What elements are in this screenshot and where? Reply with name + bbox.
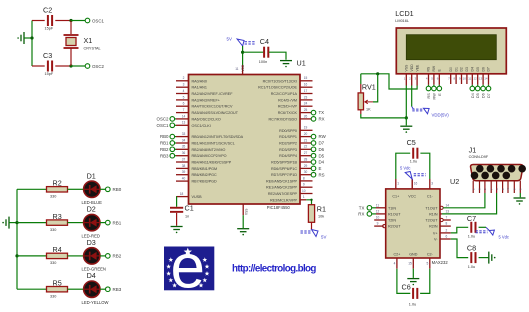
logo electrolog square [164, 247, 214, 291]
svg-text:RD7/SPP7/P1D: RD7/SPP7/P1D [271, 173, 297, 177]
svg-text:C2+: C2+ [393, 252, 400, 256]
terminal RB0 at U1 [170, 134, 175, 139]
svg-text:OSC1/CLKI: OSC1/CLKI [192, 124, 211, 128]
svg-text:C5: C5 [407, 138, 416, 147]
power 5Vdc flag VCC [411, 179, 413, 189]
svg-text:C7: C7 [467, 214, 476, 223]
svg-text:R2IN: R2IN [429, 225, 438, 229]
pin V- wire to C8 [440, 238, 451, 240]
pin VDD top of U1 [242, 65, 244, 75]
svg-text:38: 38 [182, 164, 186, 168]
svg-text:D4: D4 [87, 271, 96, 280]
svg-text:D1: D1 [454, 67, 458, 71]
U1 right pin labels [258, 79, 297, 202]
svg-text:11: 11 [235, 67, 239, 71]
svg-text:RB7/KBI3/PGD: RB7/KBI3/PGD [192, 180, 218, 184]
svg-text:13: 13 [479, 77, 483, 81]
U2 pin T2OUT bubble [440, 218, 443, 221]
svg-text:RA6/OSC2/CLKO: RA6/OSC2/CLKO [192, 117, 221, 121]
svg-text:RD1/SPP1: RD1/SPP1 [279, 135, 297, 139]
terminal D5 at LCD [477, 85, 479, 86]
svg-text:RB6/KBI2/PGC: RB6/KBI2/PGC [192, 173, 218, 177]
svg-text:RB2: RB2 [160, 147, 169, 152]
svg-text:34: 34 [182, 138, 186, 142]
wire VUSB to C1 [176, 197, 178, 207]
svg-text:330: 330 [50, 195, 56, 199]
wire C4 to ground [269, 52, 286, 60]
svg-text:3: 3 [183, 83, 185, 87]
svg-text:U2: U2 [450, 177, 459, 186]
svg-text:D0: D0 [449, 67, 453, 71]
svg-text:RA5/AN4/SS/LVDIN/C2OUT: RA5/AN4/SS/LVDIN/C2OUT [192, 111, 239, 115]
svg-text:C3: C3 [43, 51, 52, 60]
svg-text:RB1: RB1 [113, 220, 122, 225]
svg-text:4: 4 [183, 89, 185, 93]
svg-text:MAX232: MAX232 [432, 260, 449, 265]
svg-text:1: 1 [404, 77, 406, 81]
svg-text:E: E [319, 166, 322, 171]
svg-text:R1: R1 [317, 205, 326, 214]
svg-text:OSC1: OSC1 [92, 19, 105, 24]
svg-text:13: 13 [446, 210, 450, 214]
svg-text:15: 15 [304, 76, 308, 80]
svg-text:35: 35 [182, 145, 186, 149]
svg-text:8: 8 [453, 77, 455, 81]
svg-text:e: e [171, 232, 205, 301]
svg-text:RB0: RB0 [113, 187, 122, 192]
svg-text:13: 13 [182, 121, 186, 125]
wire VDD to C4 [243, 51, 264, 53]
wire D1 to terminal [100, 188, 106, 190]
terminal D4 at U1 [311, 160, 316, 165]
U1 right pins RE0-RE3 [300, 180, 313, 182]
svg-text:9: 9 [459, 77, 461, 81]
wire T1OUT to J1 pin 2 [443, 193, 485, 208]
capacitor C8 [471, 252, 475, 263]
wire R2 to D1 [68, 188, 84, 190]
node LED rail R4 [15, 254, 18, 257]
svg-text:U1: U1 [297, 59, 306, 68]
svg-text:1n: 1n [185, 215, 189, 219]
svg-text:1: 1 [303, 195, 305, 199]
svg-text:VDD(5V): VDD(5V) [432, 113, 450, 118]
svg-text:PIC18F4550: PIC18F4550 [267, 205, 291, 210]
pin V+ wire to C7 [440, 232, 451, 234]
U1 left pins RA0-OSC1 [176, 80, 189, 82]
svg-text:RA1/AN1: RA1/AN1 [192, 86, 207, 90]
svg-text:330: 330 [50, 261, 56, 265]
svg-text:12: 12 [376, 210, 380, 214]
svg-text:15pF: 15pF [45, 27, 54, 31]
svg-text:D7: D7 [319, 141, 325, 146]
U2 right pin labels [425, 203, 449, 241]
ground C8 [489, 252, 496, 264]
wire C7 to 5Vdc [479, 226, 486, 228]
svg-text:RS: RS [427, 93, 431, 99]
node VEE wiper junction [376, 72, 379, 75]
ground C1 [171, 227, 183, 234]
svg-text:RC4/D-/VM: RC4/D-/VM [278, 98, 297, 102]
svg-text:VSS: VSS [405, 64, 409, 72]
svg-text:4: 4 [426, 77, 428, 81]
U2 pin T1OUT bubble [440, 206, 443, 209]
svg-text:R2: R2 [53, 179, 62, 188]
svg-text:D2: D2 [87, 205, 96, 214]
node crystal bottom [69, 64, 72, 67]
svg-text:18: 18 [180, 192, 184, 196]
terminal TX at U1 [311, 110, 316, 115]
svg-text:1.0u: 1.0u [410, 159, 417, 163]
terminal OSC1 [85, 18, 90, 23]
svg-text:T2OUT: T2OUT [425, 219, 438, 223]
ground J1 [514, 198, 526, 205]
pin VUSB [177, 196, 189, 198]
terminal RB2 [106, 254, 111, 259]
terminal D6 at LCD [482, 85, 484, 86]
svg-text:RB3/AN9/CCP2/VPO: RB3/AN9/CCP2/VPO [192, 154, 227, 158]
svg-text:16: 16 [414, 182, 418, 186]
svg-text:RE1/AN6/CK2SPP: RE1/AN6/CK2SPP [266, 186, 297, 190]
terminal E at LCD [438, 85, 440, 86]
svg-text:C8: C8 [467, 244, 476, 253]
svg-text:29: 29 [304, 164, 308, 168]
U2 left pins [376, 207, 386, 209]
svg-text:D6: D6 [482, 93, 486, 98]
svg-text:22: 22 [304, 145, 308, 149]
svg-text:R1IN: R1IN [429, 212, 438, 216]
wire R1IN to J1 pin 3 [440, 213, 442, 215]
svg-text:T2IN: T2IN [388, 219, 396, 223]
power 5Vdc flag C7 [476, 227, 495, 235]
svg-text:6: 6 [183, 102, 185, 106]
resistor R2 [17, 188, 47, 190]
svg-text:R5: R5 [53, 278, 62, 287]
capacitor C3 [32, 65, 45, 67]
svg-text:36: 36 [182, 151, 186, 155]
crystal X1 [70, 21, 72, 35]
svg-text:20: 20 [304, 132, 308, 136]
svg-text:D5: D5 [476, 67, 480, 71]
svg-text:D5: D5 [476, 93, 480, 98]
LED D2 [84, 214, 100, 230]
svg-text:21: 21 [304, 138, 308, 142]
svg-text:RD4/SPP4: RD4/SPP4 [279, 154, 297, 158]
svg-text:14: 14 [182, 114, 186, 118]
svg-text:2: 2 [409, 77, 411, 81]
U1 right pin numbers [302, 76, 307, 199]
svg-text:RW: RW [319, 134, 327, 139]
svg-text:OSC2: OSC2 [92, 64, 105, 69]
svg-text:RB1: RB1 [160, 141, 169, 146]
wire D2 to terminal [100, 222, 106, 224]
terminal D5 at U1 [311, 153, 316, 158]
capacitor C7 [471, 222, 475, 233]
power VDD(5V) flag [411, 86, 413, 107]
resistor R4 [17, 255, 47, 257]
svg-text:VDD: VDD [241, 64, 245, 71]
svg-text:RC6/TX/CK: RC6/TX/CK [278, 111, 298, 115]
pin VSS bottom of U1 [242, 204, 244, 215]
terminal D6 at U1 [311, 147, 316, 152]
J1 pin numbers [471, 188, 522, 190]
svg-text:RB0/AN12/INT0/FLT0/SDI/SDA: RB0/AN12/INT0/FLT0/SDI/SDA [192, 135, 244, 139]
svg-text:RB0: RB0 [160, 134, 169, 139]
capacitor C2 [32, 20, 45, 22]
svg-text:6: 6 [446, 235, 448, 239]
svg-text:RD6/SPP6/P1C: RD6/SPP6/P1C [271, 167, 297, 171]
U2 bottom pins [396, 258, 398, 269]
svg-text:RC7/RX/DT/SDO: RC7/RX/DT/SDO [269, 117, 298, 121]
terminal E at U1 [311, 166, 316, 171]
svg-text:24: 24 [304, 102, 308, 106]
svg-text:5 Vdc: 5 Vdc [400, 166, 410, 171]
wire VDD up [242, 52, 244, 65]
svg-text:6: 6 [437, 77, 439, 81]
capacitor C4 [264, 47, 268, 58]
svg-text:T1OUT: T1OUT [425, 206, 438, 210]
svg-text:14: 14 [446, 203, 450, 207]
svg-text:D1: D1 [87, 171, 96, 180]
wire D3 to terminal [100, 255, 106, 257]
svg-text:37: 37 [182, 157, 186, 161]
svg-text:C2: C2 [43, 6, 52, 15]
node junction rail-ground [30, 36, 33, 39]
svg-text:RE3/MCLR/VPP: RE3/MCLR/VPP [270, 198, 298, 202]
ground U2 GND pin [412, 269, 414, 278]
capacitor C5 [396, 153, 410, 179]
svg-text:http://electrolog.blog: http://electrolog.blog [232, 264, 316, 275]
node LED rail R3 [15, 221, 18, 224]
LCD pin numbers [404, 77, 488, 81]
svg-text:RC1/T1OSI/CCP2/UOE: RC1/T1OSI/CCP2/UOE [258, 86, 297, 90]
svg-text:D4: D4 [471, 67, 475, 71]
svg-text:OSC1: OSC1 [157, 123, 170, 128]
svg-text:5 Vdc: 5 Vdc [499, 235, 509, 240]
terminal RB1 [106, 220, 111, 225]
svg-text:9: 9 [377, 222, 379, 226]
wire wiper drop [373, 74, 378, 102]
svg-text:19: 19 [304, 126, 308, 130]
U1 left pin numbers [180, 76, 186, 196]
terminal OSC2 at U1 [170, 117, 175, 122]
svg-text:C1+: C1+ [392, 194, 399, 198]
terminal OSC2 [85, 64, 90, 69]
svg-text:TX: TX [359, 206, 365, 211]
J1 pin stubs [473, 181, 520, 193]
svg-text:J1: J1 [469, 146, 477, 155]
wire ground to rail [24, 37, 32, 39]
svg-text:RB3: RB3 [160, 153, 169, 158]
op-amp U1 PIC18F4550 body [189, 75, 301, 205]
svg-text:VSS: VSS [245, 209, 249, 215]
svg-text:CRYSTAL: CRYSTAL [84, 47, 101, 51]
svg-text:RD5/SPP5/P1B: RD5/SPP5/P1B [271, 161, 297, 165]
wire C1 to ground [176, 213, 178, 226]
power +5V flag top [237, 39, 255, 46]
svg-text:D7: D7 [487, 93, 491, 98]
svg-text:R3: R3 [53, 212, 62, 221]
terminal TX at U2 [367, 206, 372, 211]
svg-text:OSC2: OSC2 [157, 117, 170, 122]
svg-text:D4: D4 [471, 93, 475, 98]
svg-text:V+: V+ [433, 231, 438, 235]
svg-text:R4: R4 [53, 245, 62, 254]
svg-text:3: 3 [431, 182, 433, 186]
terminal RX at U1 [311, 117, 316, 122]
svg-text:C1: C1 [185, 204, 194, 213]
svg-text:RA4/T0CKI/C1OUT/RCV: RA4/T0CKI/C1OUT/RCV [192, 105, 234, 109]
terminal RB3 at U1 [170, 153, 175, 158]
terminal RS at U1 [311, 172, 316, 177]
svg-text:VEE: VEE [415, 64, 419, 72]
svg-text:RB1/AN10/INT1/SCK/SCL: RB1/AN10/INT1/SCK/SCL [192, 142, 235, 146]
svg-text:39: 39 [182, 170, 186, 174]
wire crystal left rail [31, 21, 33, 67]
svg-text:D2: D2 [460, 67, 464, 71]
svg-text:1.0u: 1.0u [409, 302, 416, 306]
svg-text:10: 10 [463, 77, 467, 81]
svg-text:14: 14 [484, 77, 488, 81]
svg-text:5: 5 [183, 95, 185, 99]
svg-text:40: 40 [182, 177, 186, 181]
svg-text:RC5/D+/VP: RC5/D+/VP [278, 105, 298, 109]
svg-text:D4: D4 [319, 160, 325, 165]
node VSS ground junction [405, 116, 408, 119]
svg-text:RX: RX [358, 212, 364, 217]
svg-text:16: 16 [304, 83, 308, 87]
svg-text:RS: RS [427, 66, 431, 71]
svg-text:25: 25 [304, 108, 308, 112]
svg-text:RB5/KBI1/PGM: RB5/KBI1/PGM [192, 167, 218, 171]
svg-text:1: 1 [397, 182, 399, 186]
svg-text:D6: D6 [481, 67, 485, 71]
svg-text:RV1: RV1 [362, 83, 376, 92]
LCD pin stubs [406, 74, 488, 86]
terminal D4 at LCD [471, 85, 473, 86]
svg-text:VCC: VCC [408, 194, 416, 198]
wire to OSC1 terminal [71, 20, 85, 22]
svg-text:26: 26 [304, 114, 308, 118]
svg-text:RX: RX [319, 117, 325, 122]
svg-text:RB2: RB2 [113, 254, 122, 259]
capacitor C1 [170, 208, 183, 212]
svg-text:1.0u: 1.0u [468, 235, 475, 239]
svg-text:5V: 5V [321, 235, 326, 240]
terminal RW at U1 [311, 134, 316, 139]
svg-text:RB2/AN8/INT2/VMO: RB2/AN8/INT2/VMO [192, 148, 226, 152]
wire R5 to D4 [68, 288, 84, 290]
LCD pin labels [405, 64, 491, 72]
svg-text:28: 28 [304, 157, 308, 161]
svg-text:8: 8 [303, 176, 305, 180]
svg-text:TX: TX [319, 110, 325, 115]
terminal RS at LCD [428, 85, 430, 86]
svg-text:33: 33 [182, 132, 186, 136]
U2 top pins [395, 179, 397, 189]
terminal RB0 [106, 187, 111, 192]
svg-text:15pF: 15pF [45, 72, 54, 76]
svg-text:RA2/AN2/VREF-/CVREF: RA2/AN2/VREF-/CVREF [192, 92, 234, 96]
svg-text:LCD1: LCD1 [395, 9, 413, 18]
op-amp U2 MAX232 body [386, 189, 440, 258]
svg-text:330: 330 [50, 228, 56, 232]
svg-text:2: 2 [446, 229, 448, 233]
svg-text:23: 23 [304, 95, 308, 99]
LCD LM016L body [396, 28, 506, 74]
svg-text:RC0/T1OSO/T13CKI: RC0/T1OSO/T13CKI [263, 79, 297, 83]
svg-text:17: 17 [304, 89, 308, 93]
wire J1 pin5 to ground [519, 193, 521, 197]
svg-text:RB3: RB3 [113, 287, 122, 292]
wire D4 to terminal [100, 288, 106, 290]
svg-text:11: 11 [468, 77, 471, 81]
node crystal top [69, 19, 72, 22]
svg-text:VDD: VDD [410, 64, 414, 72]
LED D3 [84, 248, 100, 264]
terminal D7 at U1 [311, 141, 316, 146]
svg-text:CONN-D9F: CONN-D9F [469, 155, 489, 159]
power +5V flag R1 [301, 230, 319, 237]
svg-text:1.0u: 1.0u [468, 265, 475, 269]
svg-text:C4: C4 [260, 37, 269, 46]
svg-text:C1-: C1- [427, 194, 434, 198]
svg-text:10k: 10k [318, 214, 324, 218]
svg-text:10: 10 [302, 189, 306, 193]
terminal RB2 at U1 [170, 147, 175, 152]
capacitor C6 [397, 269, 410, 294]
U2 pin R2IN stub [440, 225, 451, 227]
svg-text:RC2/CCP1/P1A: RC2/CCP1/P1A [271, 92, 298, 96]
svg-text:D5: D5 [319, 153, 325, 158]
terminal OSC1 at U1 [170, 123, 175, 128]
svg-text:100n: 100n [259, 60, 267, 64]
wire RE3 to R1 [306, 200, 311, 205]
terminal D7 at LCD [488, 85, 490, 86]
U1 right pins RD0-RD7 [300, 129, 313, 131]
LED D1 [84, 181, 100, 197]
svg-text:5: 5 [431, 77, 433, 81]
wire RV1 bottom to rail [360, 110, 362, 114]
svg-text:C6: C6 [402, 283, 411, 292]
svg-text:RE2/AN7/OESPP: RE2/AN7/OESPP [268, 192, 298, 196]
svg-text:D6: D6 [319, 147, 325, 152]
wire R3 to D2 [68, 222, 84, 224]
U1 right pins RC0-RC7 [300, 80, 313, 82]
wire to OSC2 terminal [71, 65, 85, 67]
svg-text:D7: D7 [487, 67, 491, 71]
wire VSS to ground [242, 215, 244, 228]
wire R1 to +5V [311, 222, 313, 229]
svg-text:27: 27 [304, 151, 308, 155]
svg-text:7: 7 [448, 77, 450, 81]
svg-text:5V: 5V [227, 37, 232, 42]
svg-text:330: 330 [50, 295, 56, 299]
ground LED rail [2, 217, 9, 229]
svg-text:RE0/AN5/CK1SPP: RE0/AN5/CK1SPP [266, 179, 297, 183]
wire LED left rail [16, 189, 18, 289]
svg-text:LM016L: LM016L [395, 19, 409, 23]
svg-text:7: 7 [446, 216, 448, 220]
wire ground to LED rail [9, 222, 17, 224]
svg-text:R1OUT: R1OUT [388, 212, 401, 216]
svg-text:2: 2 [183, 76, 185, 80]
wire VEE to RV1 net [361, 74, 417, 89]
resistor R5 [17, 288, 47, 290]
svg-text:R2OUT: R2OUT [388, 225, 401, 229]
svg-text:9: 9 [303, 183, 305, 187]
svg-text:10: 10 [376, 216, 380, 220]
svg-text:LED-YELLOW: LED-YELLOW [82, 300, 109, 305]
